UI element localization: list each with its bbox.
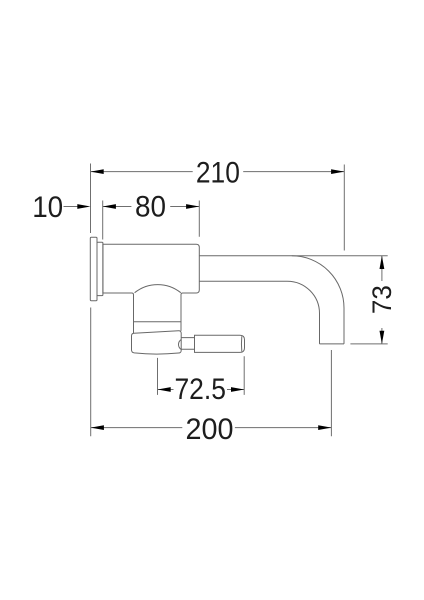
dimension 10 leader and arrow [64,206,79,208]
spout upper edge and outer curve [199,256,344,344]
spout lower edge and inner curve [199,281,319,344]
svg-text:72.5: 72.5 [174,373,226,406]
handle stem [181,338,194,350]
dimension 210 extension lines [91,164,345,251]
svg-text:210: 210 [196,157,240,190]
dimension 200 extension lines [91,308,332,437]
dimension 72.5 line [158,389,245,391]
svg-text:200: 200 [186,413,234,446]
wall plate inner flange [97,242,103,295]
handle grip [195,335,245,352]
handle boss arc [179,340,182,350]
dimension 210 line [91,171,345,173]
dimension 73 arrows [380,256,385,344]
dimension 73 line [381,256,383,344]
svg-text:73: 73 [367,285,397,314]
svg-text:80: 80 [135,191,166,224]
svg-text:10: 10 [32,191,63,224]
dimension 200 line [91,427,332,429]
dimension 210 arrows [91,169,345,174]
wall plate outer escutcheon [90,237,97,300]
dimension 72.5 extension lines [158,356,245,395]
dimension 72.5 arrows [158,387,245,392]
handle grip end cap line [240,336,242,351]
dimension 80 arrows [103,204,200,209]
body bottom arc (neck transition) [135,285,181,293]
handle housing [132,331,182,354]
dimension 200 arrows [91,425,332,430]
spout bottom tip [320,343,345,345]
dimension 80 line [103,206,200,208]
dimension 10/80 extension lines [103,201,200,240]
neck seam line [134,321,182,323]
valve body with neck [103,244,199,333]
dimension 73 extension lines [292,256,388,344]
